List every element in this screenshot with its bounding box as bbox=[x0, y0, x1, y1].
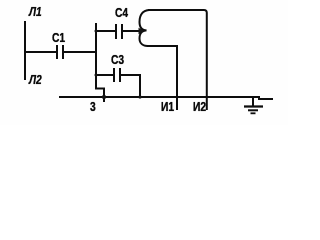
wire bbox=[122, 30, 140, 32]
label L1 bbox=[29, 6, 42, 19]
terminal line L1/L2 bbox=[24, 21, 26, 80]
wire bbox=[63, 51, 97, 53]
wire bbox=[120, 75, 140, 98]
ground bbox=[244, 97, 263, 113]
capacitor C4 bbox=[116, 24, 122, 39]
label I2 bbox=[193, 101, 206, 114]
junction bbox=[95, 74, 98, 77]
label I1 bbox=[161, 101, 174, 114]
label C3 bbox=[111, 54, 124, 67]
ground bus bbox=[59, 96, 260, 98]
junction bbox=[95, 30, 98, 33]
junction node 3 bbox=[102, 95, 106, 99]
junction bbox=[138, 95, 141, 98]
label C1 bbox=[52, 32, 65, 45]
node 3 vertical bbox=[96, 23, 104, 102]
wire bbox=[258, 98, 273, 100]
coil tap arrow bbox=[139, 28, 145, 34]
label C4 bbox=[115, 7, 128, 20]
label 3 (earth) bbox=[90, 101, 96, 114]
wire bbox=[148, 10, 207, 110]
wire bbox=[24, 51, 56, 53]
wire bbox=[96, 74, 113, 76]
wire bbox=[147, 46, 177, 110]
capacitor C3 bbox=[114, 68, 120, 82]
wire bbox=[96, 30, 115, 32]
capacitor C1 bbox=[57, 45, 63, 59]
coil L bbox=[140, 10, 150, 46]
label L2 bbox=[29, 74, 42, 87]
